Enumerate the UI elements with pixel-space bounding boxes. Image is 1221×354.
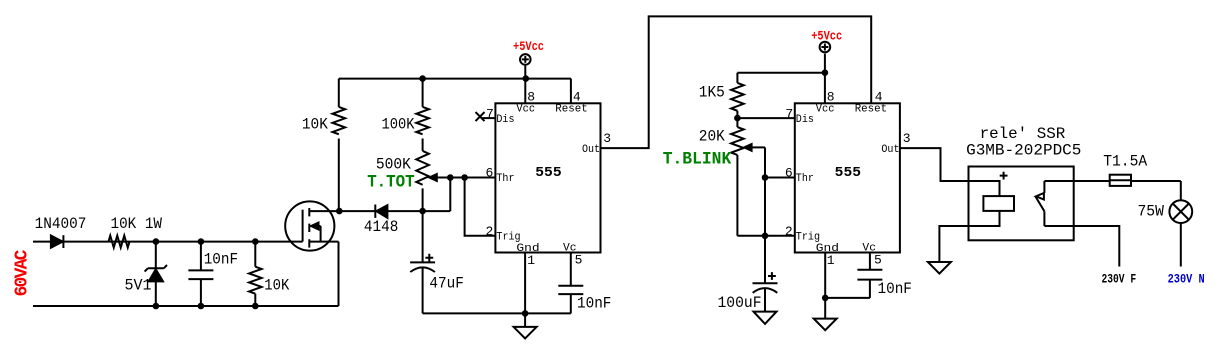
svg-text:230V N: 230V N <box>1168 271 1205 286</box>
potentiometer RV1 500K <box>416 151 450 211</box>
diode D2 4148 <box>375 205 387 218</box>
SSR output contact <box>1036 181 1045 226</box>
node drain junction <box>336 208 343 215</box>
op-amp U1 555 box <box>495 103 600 252</box>
wire drain riser <box>338 79 340 212</box>
wire Out U2 to SSR <box>900 148 1000 196</box>
wire 1K5 feed <box>737 72 825 74</box>
wire top rail left <box>33 241 303 243</box>
svg-text:10nF: 10nF <box>577 295 611 313</box>
svg-text:Reset: Reset <box>555 104 588 116</box>
pin 7 U1 no-connect X <box>476 112 496 121</box>
svg-text:47uF: 47uF <box>429 274 463 292</box>
svg-text:1: 1 <box>827 253 835 268</box>
svg-text:Trig: Trig <box>796 232 820 244</box>
svg-text:10nF: 10nF <box>204 250 238 268</box>
fuse F1 T1.5A <box>1110 175 1131 186</box>
svg-text:+5Vcc: +5Vcc <box>513 40 544 54</box>
wire Trig tie <box>465 178 496 236</box>
resistor R4 100K <box>416 79 429 151</box>
svg-text:6: 6 <box>486 166 494 181</box>
svg-text:20K: 20K <box>699 128 725 146</box>
svg-text:T.TOT: T.TOT <box>367 173 415 193</box>
svg-text:10K: 10K <box>302 115 328 133</box>
node Trig junction U2 <box>762 233 769 240</box>
svg-text:Dis: Dis <box>796 114 814 126</box>
svg-text:Trig: Trig <box>496 232 520 244</box>
svg-text:Vcc: Vcc <box>816 104 835 116</box>
svg-text:75W: 75W <box>1138 202 1165 220</box>
wire Thr net <box>434 177 496 179</box>
svg-text:10nF: 10nF <box>878 280 912 298</box>
node Dis junction U2 <box>734 115 741 122</box>
SSR internal coil box <box>983 196 1014 211</box>
wire wiper drop U2 <box>764 147 766 283</box>
node top rail junctions <box>153 238 259 245</box>
wire SSR output bottom <box>1044 226 1119 267</box>
power +5Vcc U1 <box>520 54 531 103</box>
svg-text:8: 8 <box>527 90 535 105</box>
svg-text:1K5: 1K5 <box>699 84 725 102</box>
node Thr junction U2 <box>762 174 769 181</box>
node Vcc top junction <box>523 75 530 82</box>
svg-text:5V1: 5V1 <box>125 276 152 294</box>
svg-text:2: 2 <box>785 224 793 239</box>
svg-text:100uF: 100uF <box>718 294 762 312</box>
svg-text:7: 7 <box>486 106 494 121</box>
svg-text:1N4007: 1N4007 <box>35 215 87 233</box>
svg-text:3: 3 <box>603 131 611 146</box>
ground GND1 <box>514 313 537 338</box>
ground GND4 <box>928 262 951 274</box>
relay SSR1 box <box>969 167 1074 241</box>
node Vcc junction U2 <box>822 69 829 76</box>
svg-text:1: 1 <box>527 253 535 268</box>
capacitor C4 100uF <box>753 272 778 312</box>
ground GND3 <box>814 298 837 330</box>
ground GND2 <box>754 312 777 324</box>
resistor R2 10K <box>249 242 262 306</box>
wire Gnd drop U2 <box>824 253 826 298</box>
wire Trig U2 <box>737 235 794 237</box>
wire Gnd drop U1 <box>524 253 526 314</box>
node Thr junction 2 <box>461 174 468 181</box>
svg-text:4148: 4148 <box>364 218 398 236</box>
wire Dis U2 <box>737 117 794 119</box>
svg-text:+5Vcc: +5Vcc <box>811 30 842 44</box>
svg-text:60VAC: 60VAC <box>12 249 32 296</box>
node ground junction U2 <box>822 295 829 302</box>
resistor R1 10K 1W <box>109 236 130 248</box>
node Thr junction 1 <box>447 174 454 181</box>
potentiometer RV2 20K <box>731 118 765 236</box>
capacitor C3 10nF U1 <box>558 253 583 314</box>
svg-text:6: 6 <box>785 166 793 181</box>
node ground junction U1 <box>522 310 529 317</box>
wire ground run U1 <box>423 312 571 314</box>
wire Out U1 to Reset U2 <box>601 16 872 148</box>
label SSR plus <box>1000 172 1008 180</box>
transistor Q1 MOSFET <box>285 201 339 306</box>
capacitor C1 10nF <box>188 242 213 306</box>
wire Thr U2 <box>765 177 795 179</box>
svg-text:5: 5 <box>874 252 882 267</box>
svg-text:10K: 10K <box>264 276 289 294</box>
power +5Vcc U2 <box>820 42 831 104</box>
svg-text:Gnd: Gnd <box>816 243 839 255</box>
svg-text:rele' SSR: rele' SSR <box>980 125 1066 143</box>
svg-text:8: 8 <box>827 90 835 105</box>
svg-text:Dis: Dis <box>496 114 514 126</box>
capacitor C2 47uF <box>410 211 435 313</box>
lamp LA1 75W <box>1169 200 1192 223</box>
pin 4 U1 wire Reset drop <box>570 79 572 104</box>
node 100K top junction <box>419 75 426 82</box>
svg-text:555: 555 <box>535 165 561 181</box>
wire lamp to neutral <box>1180 223 1182 267</box>
svg-text:500K: 500K <box>376 155 411 173</box>
svg-text:Gnd: Gnd <box>516 243 539 255</box>
svg-text:Out: Out <box>582 144 600 156</box>
capacitor C5 10nF U2 <box>825 253 882 298</box>
svg-text:7: 7 <box>785 106 793 121</box>
svg-text:10K 1W: 10K 1W <box>111 215 163 233</box>
resistor R5 1K5 <box>731 73 744 118</box>
wire top bias rail <box>339 78 571 80</box>
svg-text:3: 3 <box>903 131 911 146</box>
zener Z1 5V1 <box>145 242 167 306</box>
wire lamp feed <box>1180 181 1182 200</box>
diode D1 1N4007 <box>51 235 64 248</box>
node bottom rail junctions <box>153 303 259 310</box>
svg-text:555: 555 <box>835 165 861 181</box>
resistor R3 10K <box>332 107 345 134</box>
svg-text:Vcc: Vcc <box>516 104 535 116</box>
svg-text:5: 5 <box>575 252 583 267</box>
svg-text:Out: Out <box>881 144 899 156</box>
wire bottom rail left <box>33 305 339 307</box>
wire riser to Thr <box>449 178 451 212</box>
svg-text:4: 4 <box>573 90 581 105</box>
wire SSR output top <box>1044 180 1180 182</box>
svg-text:Thr: Thr <box>796 173 814 185</box>
op-amp U2 555 box <box>795 103 900 252</box>
svg-text:4: 4 <box>875 90 883 105</box>
svg-text:230V F: 230V F <box>1102 271 1137 286</box>
wire discharge net <box>339 210 450 212</box>
svg-text:T.BLINK: T.BLINK <box>663 149 732 169</box>
svg-text:Reset: Reset <box>855 104 888 116</box>
svg-text:2: 2 <box>486 224 494 239</box>
node pot bottom junction <box>419 208 426 215</box>
svg-text:T1.5A: T1.5A <box>1103 153 1147 171</box>
svg-text:100K: 100K <box>382 115 415 133</box>
wire SSR input return <box>939 211 999 262</box>
svg-text:Thr: Thr <box>496 173 514 185</box>
svg-text:G3MB-202PDC5: G3MB-202PDC5 <box>966 142 1081 160</box>
